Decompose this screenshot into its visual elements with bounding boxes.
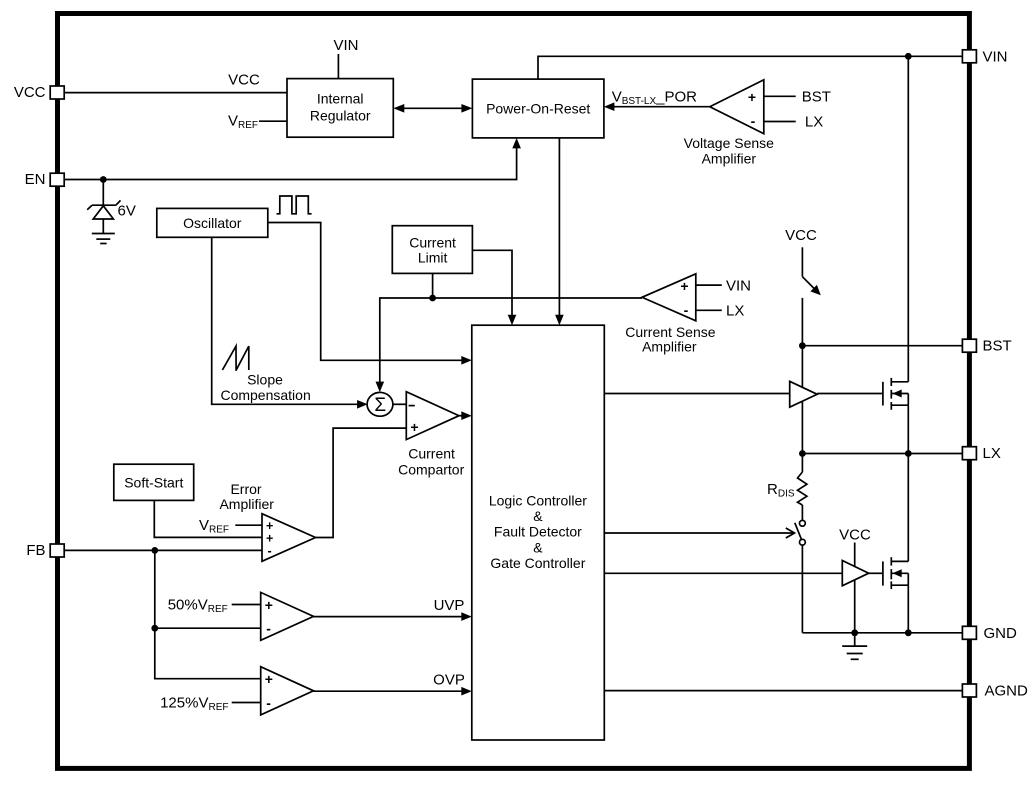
node junction on VIN wire — [905, 53, 912, 60]
svg-text:Fault Detector: Fault Detector — [494, 524, 582, 540]
wire high-side driver to gate — [817, 393, 883, 395]
pin EN — [25, 171, 65, 188]
node junction at BST — [799, 342, 806, 349]
svg-text:Current: Current — [409, 234, 456, 250]
block Logic Controller / Fault Detector / Gate Controller — [472, 325, 605, 740]
svg-text:+: + — [748, 89, 756, 105]
net label VREF — [228, 113, 258, 132]
svg-text:LX: LX — [983, 445, 1001, 462]
wire POR top to VIN pin — [538, 56, 962, 79]
value label RDIS — [767, 481, 795, 500]
wire BST junction to BST pin — [802, 345, 962, 347]
block Power-On-Reset — [472, 79, 604, 138]
net label LX at CSA — [726, 303, 744, 320]
svg-text:VCC: VCC — [228, 72, 260, 89]
svg-text:6V: 6V — [118, 203, 136, 220]
node junction on CSA output line — [429, 295, 436, 302]
svg-text:LX: LX — [726, 303, 744, 320]
svg-text:+: + — [265, 597, 273, 613]
wire FB pin to error amplifier inverting input — [64, 549, 262, 551]
wire VIN stub into CSA — [696, 284, 722, 286]
op-amp U2 Current Sense Amplifier — [625, 274, 715, 355]
svg-text:VIN: VIN — [726, 277, 751, 294]
net label LX at VSA — [805, 114, 823, 131]
pin LX — [962, 445, 1000, 462]
ground below zener — [92, 234, 115, 244]
svg-text:Logic Controller: Logic Controller — [489, 492, 587, 508]
wire VREF stub into error amplifier — [235, 524, 262, 526]
svg-text:Slope: Slope — [247, 372, 283, 388]
svg-text:BST: BST — [983, 338, 1012, 355]
wire VCC rail down through low-side driver to ground — [854, 543, 856, 633]
bootstrap charge switch from VCC — [802, 247, 820, 345]
svg-text:Current: Current — [408, 446, 455, 462]
net label BST at VSA — [802, 89, 831, 106]
wire 125%VREF stub into OVP comparator — [232, 702, 261, 704]
pin VIN — [962, 48, 1007, 65]
svg-text:GND: GND — [984, 625, 1018, 642]
wire bidirectional arrow Internal Regulator to Power-On-Reset — [393, 104, 472, 113]
node junction LX right — [905, 450, 912, 457]
svg-text:FB: FB — [26, 542, 45, 559]
ground symbol below GND rail — [842, 633, 867, 660]
svg-text:Compensation: Compensation — [220, 387, 310, 403]
op-amp U3 Error Amplifier — [262, 514, 316, 562]
svg-text:-: - — [266, 621, 271, 637]
svg-text:+: + — [265, 671, 273, 687]
svg-text:UVP: UVP — [434, 597, 465, 614]
svg-text:BST: BST — [802, 89, 831, 106]
node junction on FB branch at UVP — [151, 625, 158, 632]
svg-text:Amplifier: Amplifier — [219, 496, 274, 512]
svg-text:-: - — [751, 113, 756, 129]
block Current Limit — [392, 226, 472, 274]
svg-text:&: & — [533, 508, 543, 524]
node junction GND at MOSFET source — [905, 629, 912, 636]
wire EN junction down to zener — [102, 180, 104, 206]
svg-text:VCC: VCC — [785, 227, 817, 244]
wire LX stub into VSA — [764, 121, 796, 123]
svg-text:Σ: Σ — [374, 395, 386, 416]
pin VCC — [14, 84, 64, 101]
wire high-side source rail to LX — [907, 405, 909, 453]
wire BST stub into VSA — [764, 95, 796, 97]
summing node sigma — [367, 392, 393, 416]
wire BST rail down through high-side driver to LX — [801, 346, 803, 454]
wire VIN stub into Internal Regulator top — [337, 54, 339, 79]
comparator Current Compartor — [398, 392, 464, 478]
wire LX stub into CSA — [696, 309, 722, 311]
wire low-side drain rail to LX — [907, 454, 909, 562]
net label VCC above bootstrap switch — [785, 227, 817, 244]
svg-text:&: & — [533, 539, 543, 555]
wire UVP output to Logic Controller — [314, 612, 472, 621]
wire Logic Controller to AGND pin — [604, 690, 962, 692]
node junction on FB wire — [151, 547, 158, 554]
svg-text:AGND: AGND — [985, 683, 1029, 700]
slope compensation sawtooth symbol — [222, 346, 248, 370]
net label VIN at CSA — [726, 277, 751, 294]
svg-text:Oscillator: Oscillator — [183, 215, 242, 231]
wire Current Limit right to Logic Controller top — [472, 250, 516, 325]
wire CSA output to summing node — [376, 298, 643, 392]
svg-text:VIN: VIN — [333, 37, 358, 54]
pin BST — [962, 338, 1011, 355]
wire LX rail to LX pin — [802, 453, 962, 455]
discharge switch — [795, 520, 806, 632]
svg-text:OVP: OVP — [433, 672, 465, 689]
wire POR bottom to Logic Controller top — [555, 138, 564, 325]
svg-text:Gate Controller: Gate Controller — [490, 555, 585, 571]
svg-text:VIN: VIN — [983, 48, 1008, 65]
wire OVP output to Logic Controller — [314, 687, 472, 696]
net label VBST-LX_POR — [612, 89, 697, 108]
wire GND rail to GND pin — [802, 632, 962, 634]
wire EN pin to POR bottom — [64, 138, 521, 180]
net label VCC above low-side driver — [839, 527, 871, 544]
svg-text:+: + — [680, 278, 688, 294]
clock waveform symbol — [277, 196, 312, 214]
net label OVP — [433, 672, 465, 689]
wire low-side source rail to GND — [907, 585, 909, 633]
wire Oscillator bottom to summing node — [212, 237, 368, 408]
pin GND — [962, 625, 1017, 642]
wire Soft-Start to error amplifier — [154, 500, 262, 537]
comparator UVP — [261, 592, 314, 640]
transistor Q1 high-side MOSFET — [883, 378, 908, 410]
svg-text:+: + — [410, 419, 418, 435]
gate driver low-side — [842, 561, 868, 586]
svg-text:-: - — [684, 302, 689, 318]
net label VCC on wire — [228, 72, 260, 89]
pin AGND — [962, 683, 1028, 700]
wire Oscillator output to Logic Controller — [268, 223, 472, 365]
svg-text:Amplifier: Amplifier — [702, 150, 757, 166]
block Internal Regulator — [287, 79, 393, 138]
comparator OVP — [261, 667, 314, 715]
op-amp U1 Voltage Sense Amplifier — [684, 80, 775, 167]
wire error amplifier output to current comparator — [316, 428, 407, 537]
wire VSA output to POR — [604, 102, 710, 111]
wire VCC pin to Internal Regulator — [64, 92, 287, 94]
value label 6V — [118, 203, 136, 220]
label Slope Compensation — [220, 372, 310, 403]
gate driver high-side — [790, 381, 818, 407]
node junction on EN wire — [100, 176, 107, 183]
net label 125%VREF — [160, 695, 228, 714]
wire Logic Controller switch control arrow — [604, 528, 794, 538]
svg-text:Current Sense: Current Sense — [625, 324, 715, 340]
svg-text:Soft-Start: Soft-Start — [124, 474, 183, 490]
svg-text:Regulator: Regulator — [310, 107, 371, 123]
wire low-side driver to gate — [869, 572, 883, 574]
wire FB branch down to UVP and OVP — [155, 550, 261, 628]
svg-text:-: - — [268, 544, 272, 558]
label Error Amplifier — [219, 481, 274, 512]
net label 50%VREF — [168, 597, 228, 616]
svg-text:Power-On-Reset: Power-On-Reset — [486, 100, 590, 116]
svg-text:VCC: VCC — [839, 527, 871, 544]
net label VIN above Internal Regulator — [333, 37, 358, 54]
svg-text:Error: Error — [230, 481, 261, 497]
block Oscillator — [157, 208, 268, 237]
wire summing node to current comparator — [392, 403, 406, 405]
svg-text:VCC: VCC — [14, 84, 46, 101]
wire Current Limit bottom to CSA output line — [432, 273, 434, 298]
pin FB — [26, 542, 64, 559]
svg-text:Internal: Internal — [317, 90, 364, 106]
net label VREF at error amplifier — [199, 517, 229, 536]
svg-text:Voltage Sense: Voltage Sense — [684, 135, 775, 151]
node junction GND at driver return — [851, 629, 858, 636]
wire FB branch to OVP — [155, 628, 261, 679]
net label UVP — [434, 597, 465, 614]
node junction LX left — [799, 450, 806, 457]
svg-text:Compartor: Compartor — [398, 462, 464, 478]
transistor Q2 low-side MOSFET — [883, 557, 908, 589]
svg-text:LX: LX — [805, 114, 823, 131]
wire current comparator output to Logic Controller — [459, 411, 472, 420]
wire 50%VREF stub into UVP comparator — [232, 604, 261, 606]
svg-text:Limit: Limit — [418, 249, 448, 265]
svg-text:EN: EN — [25, 171, 46, 188]
wire VREF stub into Internal Regulator — [259, 120, 287, 122]
block Soft-Start — [114, 464, 194, 500]
svg-text:Amplifier: Amplifier — [642, 339, 697, 355]
zener diode 6V — [87, 200, 120, 233]
svg-text:-: - — [266, 695, 271, 711]
resistor RDIS — [798, 454, 807, 521]
wire Logic Controller to high-side driver — [604, 393, 789, 395]
wire Logic Controller to low-side driver — [604, 572, 842, 574]
wire VIN rail from top junction to high-side drain — [907, 56, 909, 382]
